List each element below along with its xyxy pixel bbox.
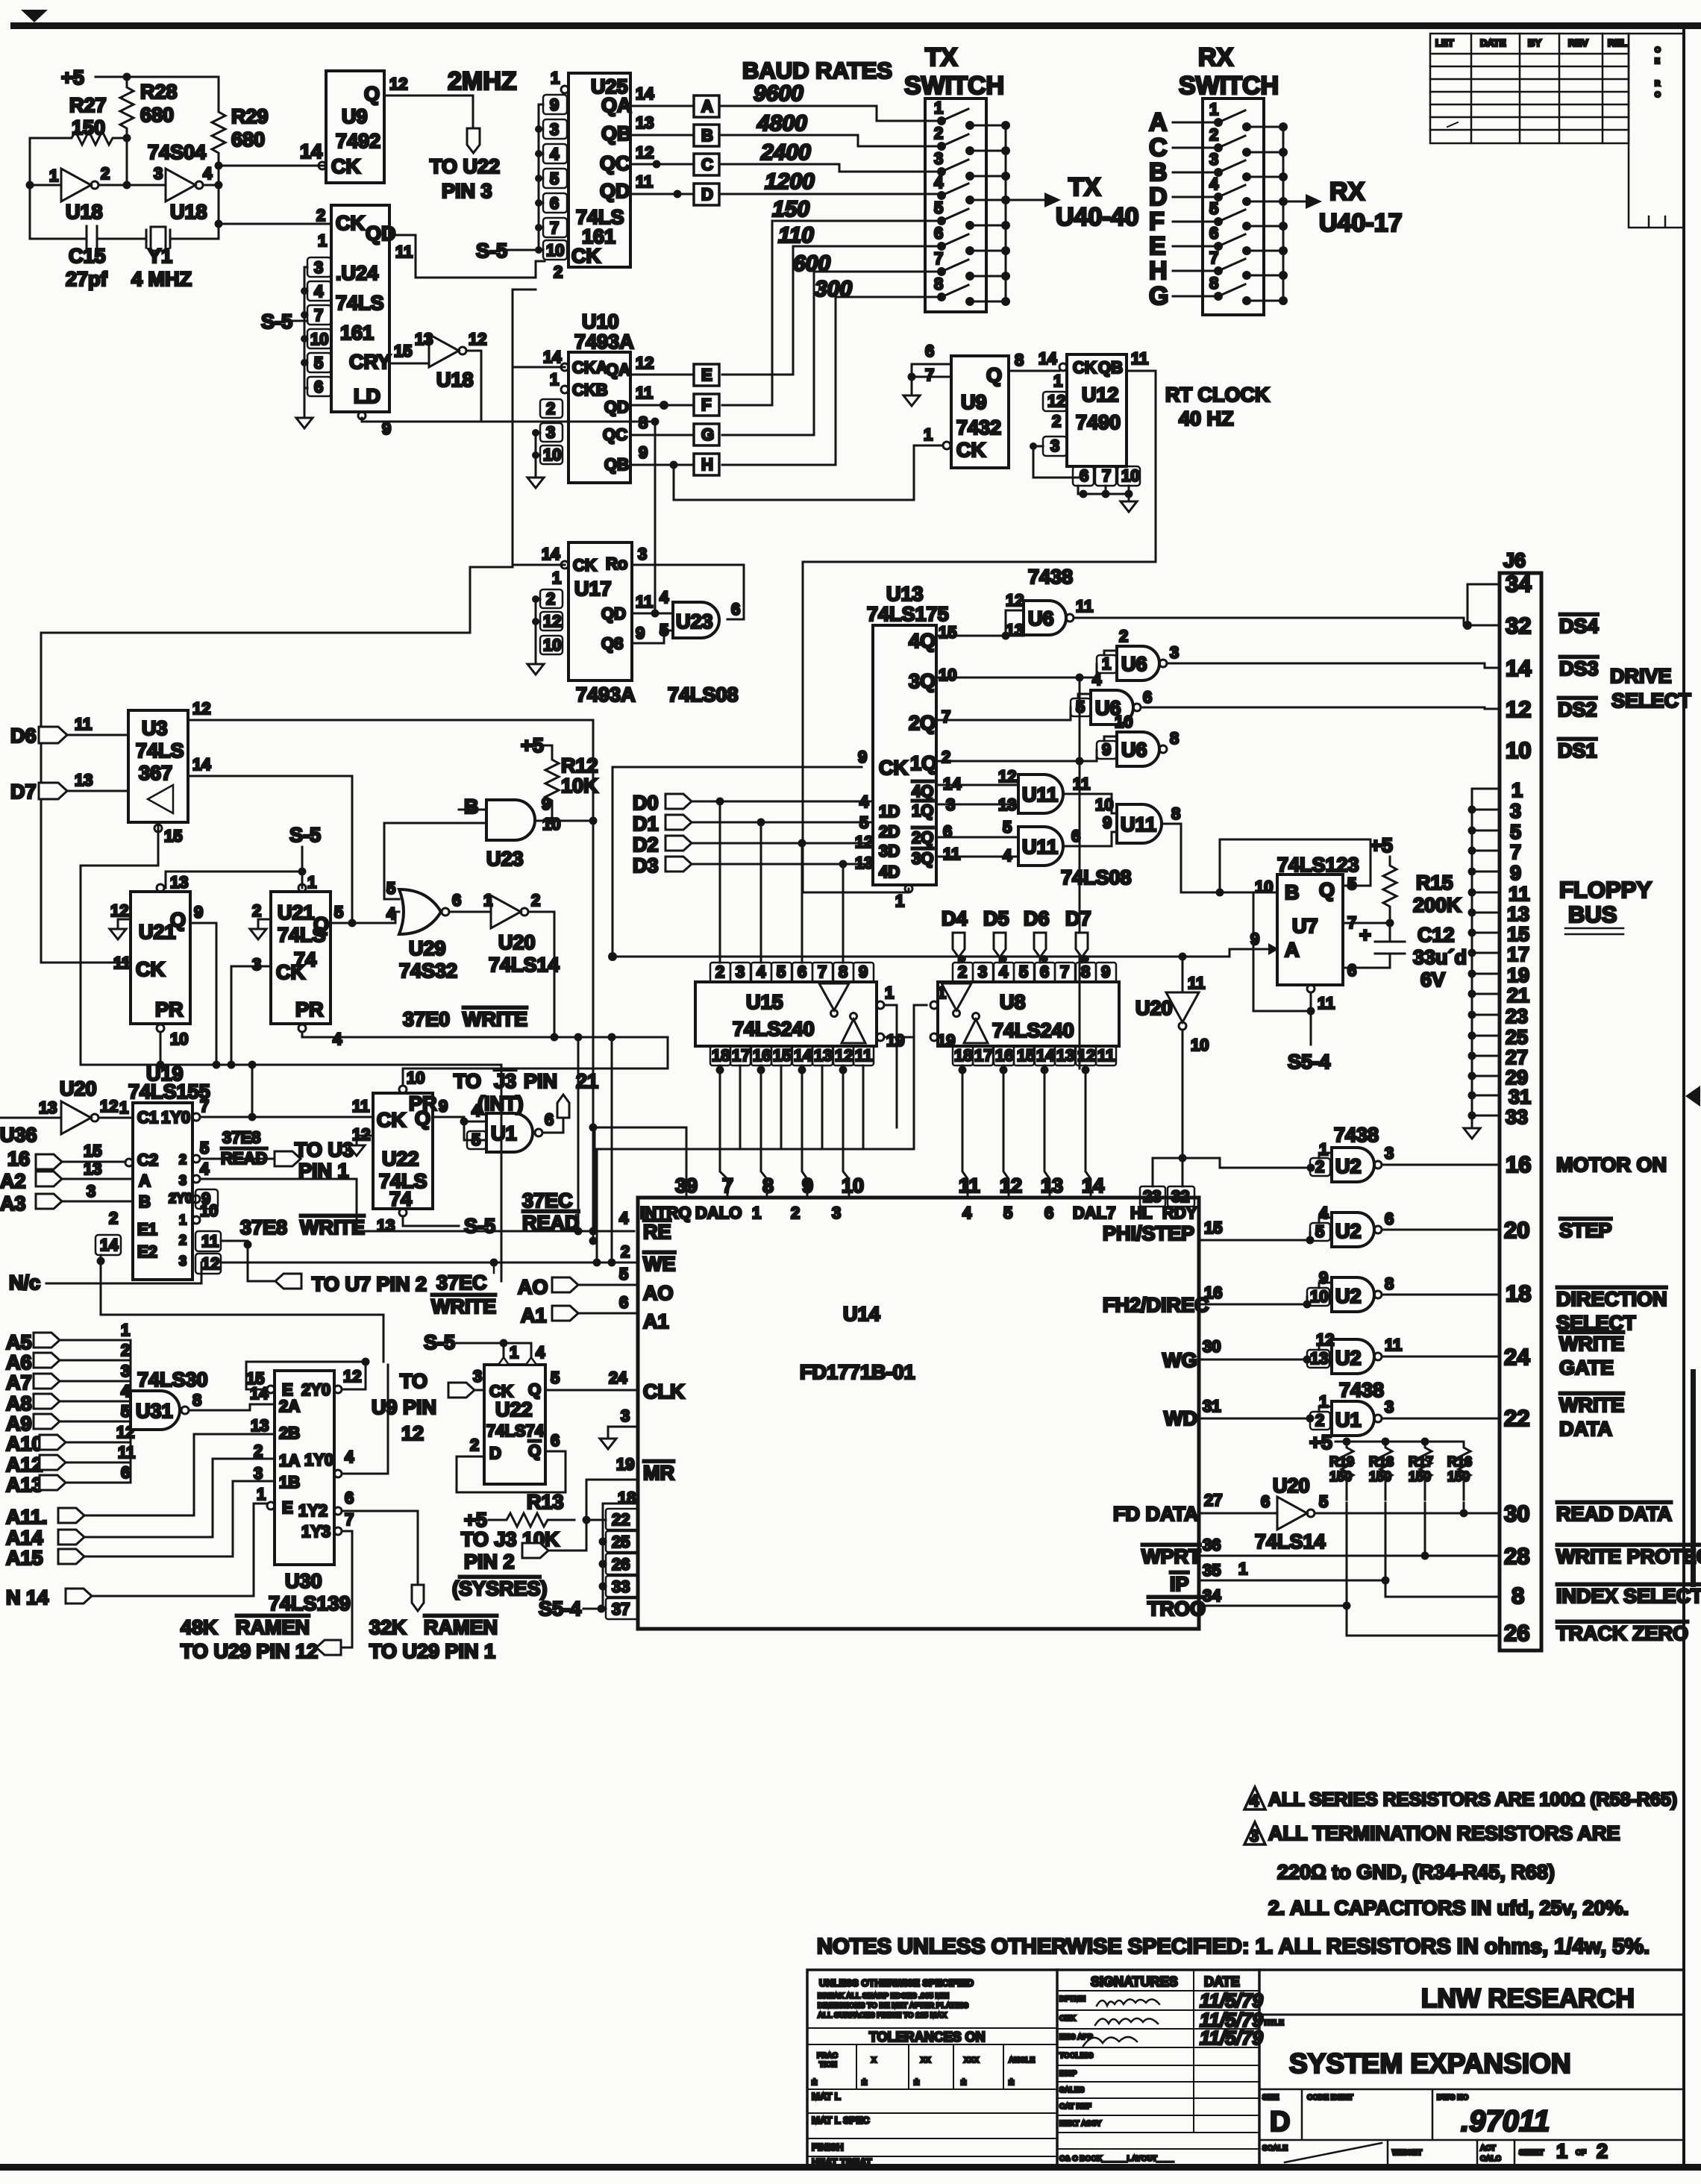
svg-text:R29: R29 xyxy=(231,105,269,128)
svg-text:11: 11 xyxy=(943,845,960,863)
svg-text:7: 7 xyxy=(550,219,559,237)
svg-text:7: 7 xyxy=(1102,466,1111,485)
svg-text:2: 2 xyxy=(252,901,261,920)
svg-text:25: 25 xyxy=(612,1533,630,1551)
svg-text:QD: QD xyxy=(600,180,630,202)
svg-text:21: 21 xyxy=(576,1070,598,1092)
svg-text:Ro: Ro xyxy=(606,554,627,573)
wire U10 QA to box E xyxy=(630,374,694,376)
svg-text:6: 6 xyxy=(1071,827,1080,845)
resistor R12 xyxy=(545,755,559,821)
wire U13 2Qb 3Qb to U11b xyxy=(936,837,1018,857)
svg-text:LNW RESEARCH: LNW RESEARCH xyxy=(1421,1984,1635,2013)
pin boxes U15 bottom xyxy=(710,1046,874,1066)
svg-text:AO: AO xyxy=(643,1282,674,1304)
wire baud 150 to switch row5 xyxy=(722,221,939,405)
svg-text:6: 6 xyxy=(1385,1210,1394,1228)
wire PR row down to U22a xyxy=(402,1068,404,1086)
svg-text:2: 2 xyxy=(531,891,540,910)
svg-text:C1: C1 xyxy=(137,1108,158,1127)
svg-text:11/5/79: 11/5/79 xyxy=(1200,2027,1263,2049)
note flag 3 xyxy=(1244,1822,1265,1844)
wire U1a out to INT flag xyxy=(542,1118,563,1133)
top-left fold triangle xyxy=(21,10,48,22)
note flag 4 xyxy=(1244,1787,1265,1809)
svg-text:2: 2 xyxy=(179,1233,187,1248)
svg-text:TO U29 PIN 12: TO U29 PIN 12 xyxy=(181,1640,318,1662)
svg-text:4: 4 xyxy=(333,1030,342,1048)
svg-text:19: 19 xyxy=(886,1031,904,1050)
wire U22a Q to U1 xyxy=(433,1117,486,1140)
capacitor C15 xyxy=(30,226,146,251)
svg-text:10: 10 xyxy=(543,445,561,464)
wire U11a out to U11c xyxy=(1063,794,1117,813)
svg-text:CALC: CALC xyxy=(1480,2155,1501,2163)
svg-text:2: 2 xyxy=(546,399,555,418)
svg-text:S-5: S-5 xyxy=(464,1215,495,1237)
connector flag to U22 pin 3 xyxy=(467,128,480,153)
svg-text:12: 12 xyxy=(1047,392,1065,410)
svg-text:23: 23 xyxy=(1506,1005,1528,1027)
gate U6b xyxy=(1117,646,1159,680)
svg-text:(SYSRES): (SYSRES) xyxy=(452,1577,548,1600)
svg-text:TRACK ZERO: TRACK ZERO xyxy=(1556,1622,1688,1645)
svg-text:5: 5 xyxy=(314,354,323,372)
svg-text:74LS: 74LS xyxy=(336,292,384,314)
svg-text:9: 9 xyxy=(542,795,551,813)
svg-text:CK: CK xyxy=(377,1109,406,1131)
svg-text:CK: CK xyxy=(276,961,305,983)
gate U1a 7438 xyxy=(486,1113,533,1152)
svg-text:D: D xyxy=(489,1444,501,1462)
wire U17 QB to U23 input xyxy=(632,631,673,643)
svg-text:74LS155: 74LS155 xyxy=(128,1080,210,1103)
connector flag TO J3 PIN 21 xyxy=(557,1095,569,1118)
svg-text:5: 5 xyxy=(1019,963,1028,981)
svg-text:3: 3 xyxy=(179,1254,187,1268)
svg-text:10: 10 xyxy=(170,1030,188,1048)
svg-text:1: 1 xyxy=(510,1343,519,1362)
svg-text:13: 13 xyxy=(75,771,93,789)
svg-text:Q: Q xyxy=(415,1107,430,1130)
svg-text:9600: 9600 xyxy=(754,81,803,106)
wire U9b Q to U12 CK xyxy=(1009,370,1059,372)
svg-text:F: F xyxy=(701,395,711,414)
svg-text:10: 10 xyxy=(543,636,561,654)
svg-text:R17: R17 xyxy=(1409,1454,1433,1469)
svg-text:32: 32 xyxy=(1506,613,1531,639)
svg-text:9: 9 xyxy=(382,419,391,438)
svg-text:.U24: .U24 xyxy=(336,262,378,284)
svg-text:5: 5 xyxy=(1209,199,1218,218)
buffer triangle2 in U15 xyxy=(842,1019,865,1043)
svg-text:22: 22 xyxy=(612,1510,630,1529)
svg-text:2: 2 xyxy=(546,589,555,608)
svg-text:J6: J6 xyxy=(1503,549,1526,572)
svg-text:Q: Q xyxy=(313,913,329,936)
svg-text:WEIGHT: WEIGHT xyxy=(1392,2149,1422,2157)
svg-text:E: E xyxy=(701,366,712,384)
gate U6d xyxy=(1117,732,1159,766)
ground xyxy=(903,395,920,406)
svg-text:36: 36 xyxy=(1203,1536,1221,1554)
IC U24 74LS161 xyxy=(331,205,389,412)
svg-text:74LS: 74LS xyxy=(136,739,184,762)
svg-text:BAUD RATES: BAUD RATES xyxy=(742,57,892,84)
svg-text:U11: U11 xyxy=(1121,813,1156,836)
svg-text:1: 1 xyxy=(552,569,561,587)
gate U29 74S32 xyxy=(399,889,441,934)
IC U15 74LS240 xyxy=(695,982,877,1046)
svg-text:6: 6 xyxy=(545,1110,554,1129)
ground xyxy=(110,929,126,939)
svg-text:1Y0: 1Y0 xyxy=(304,1451,333,1469)
svg-text:15: 15 xyxy=(84,1142,101,1160)
svg-text:2Q: 2Q xyxy=(909,712,936,734)
wire U24 QD out to U25 CK xyxy=(389,235,545,278)
svg-text:6: 6 xyxy=(121,1463,130,1482)
svg-text:SIGNATURES: SIGNATURES xyxy=(1091,1974,1178,1989)
svg-text:19: 19 xyxy=(616,1455,634,1474)
svg-text:1A: 1A xyxy=(279,1451,300,1470)
wire U15 even pins to DAL xyxy=(720,1066,849,1198)
wire U7 Q loop xyxy=(1220,839,1370,892)
wire DS readback vertical xyxy=(1079,678,1081,1068)
svg-text:11: 11 xyxy=(395,243,413,261)
svg-text:11: 11 xyxy=(636,384,653,402)
svg-text:25: 25 xyxy=(1506,1026,1528,1048)
svg-text:GATE: GATE xyxy=(1559,1357,1614,1379)
svg-text:200K: 200K xyxy=(1413,894,1462,916)
svg-text:1: 1 xyxy=(1238,1559,1247,1578)
svg-text:161: 161 xyxy=(340,322,374,344)
svg-text:6V: 6V xyxy=(1420,969,1445,991)
svg-text:31: 31 xyxy=(1203,1397,1221,1415)
svg-text:U7: U7 xyxy=(1292,915,1318,937)
svg-text:7: 7 xyxy=(934,249,943,268)
svg-text:6: 6 xyxy=(551,1431,560,1450)
svg-text:TO: TO xyxy=(454,1070,481,1092)
gate U2d WRITE GATE xyxy=(1332,1339,1374,1374)
svg-text:SHEET: SHEET xyxy=(1519,2149,1544,2157)
svg-text:G: G xyxy=(701,425,714,444)
svg-text:U23: U23 xyxy=(486,848,524,870)
svg-text:3: 3 xyxy=(1170,643,1179,662)
svg-text:1: 1 xyxy=(1319,1392,1328,1411)
wire U11b out to U11c xyxy=(1063,832,1117,846)
svg-text:TION: TION xyxy=(819,2061,837,2069)
svg-text:U2: U2 xyxy=(1335,1347,1362,1369)
wire U17 CK feed xyxy=(513,367,565,565)
svg-text:J3: J3 xyxy=(494,1070,516,1092)
svg-text:E: E xyxy=(1655,57,1660,66)
svg-text:Q8: Q8 xyxy=(601,634,623,653)
svg-text:7: 7 xyxy=(1510,841,1521,863)
svg-text:2: 2 xyxy=(1315,1157,1324,1176)
svg-text:3: 3 xyxy=(550,120,559,139)
svg-text:8: 8 xyxy=(1015,351,1024,369)
svg-text:PHI/STEP: PHI/STEP xyxy=(1103,1222,1194,1245)
svg-text:R15: R15 xyxy=(1416,872,1453,894)
wire D4-D7 into U8 top xyxy=(959,957,1082,963)
svg-text:A7: A7 xyxy=(6,1371,32,1394)
wire U31 out to U30 2A xyxy=(189,1404,275,1410)
svg-text:3: 3 xyxy=(1385,1144,1394,1163)
svg-text:10: 10 xyxy=(1506,737,1531,763)
wire U6c out to J6-12 DS2 xyxy=(1141,707,1500,709)
node E xyxy=(694,364,719,386)
svg-text:SYSTEM EXPANSION: SYSTEM EXPANSION xyxy=(1289,2048,1571,2079)
wire U24 pin chain to ground xyxy=(304,267,307,418)
svg-text:B: B xyxy=(464,795,479,818)
svg-text:RAMEN: RAMEN xyxy=(236,1616,310,1639)
inverter U18c xyxy=(429,334,459,367)
svg-text:11: 11 xyxy=(1318,994,1335,1013)
svg-text:CRY: CRY xyxy=(349,351,391,373)
wire U13 CK feed row xyxy=(613,767,862,957)
wire QD junction up xyxy=(481,422,655,613)
svg-text:18: 18 xyxy=(1506,1280,1531,1307)
svg-text:PR: PR xyxy=(155,998,184,1021)
wire baud 1200 to switch row4 xyxy=(719,193,939,195)
inverter U18b xyxy=(166,169,195,201)
wire U25 QA to box A xyxy=(630,105,694,107)
wire long loop from U24 area down-left xyxy=(41,567,513,633)
svg-text:16: 16 xyxy=(7,1148,30,1170)
svg-text:RX: RX xyxy=(1329,178,1365,206)
svg-text:11: 11 xyxy=(636,592,653,611)
svg-text:12: 12 xyxy=(1000,1174,1022,1197)
wire baud 2400 to switch row3 xyxy=(719,164,939,172)
connector flag TO U7 PIN 2 xyxy=(275,1274,301,1289)
right border line xyxy=(1682,29,1685,2166)
svg-text:7: 7 xyxy=(722,1174,733,1197)
svg-text:14: 14 xyxy=(1036,1046,1055,1065)
svg-text:3: 3 xyxy=(934,149,943,168)
RX switch box xyxy=(1203,98,1264,315)
resistor R28 xyxy=(120,77,134,138)
svg-text:1Y3: 1Y3 xyxy=(301,1522,331,1541)
svg-text:DS3: DS3 xyxy=(1559,657,1599,680)
svg-text:S-5: S-5 xyxy=(476,240,507,262)
right edge arrow marker xyxy=(1685,1086,1700,1107)
wire U31 input bus xyxy=(130,1340,132,1483)
ground xyxy=(527,478,544,488)
svg-text:U20: U20 xyxy=(60,1077,97,1100)
svg-text:RAMEN: RAMEN xyxy=(424,1616,498,1639)
svg-text:5: 5 xyxy=(386,879,395,898)
svg-text:6: 6 xyxy=(798,963,806,981)
svg-text:A2: A2 xyxy=(0,1170,26,1192)
svg-text:A: A xyxy=(139,1171,151,1190)
svg-text:7438: 7438 xyxy=(1028,566,1073,588)
svg-text:R18: R18 xyxy=(1369,1454,1394,1469)
svg-text:13: 13 xyxy=(170,873,188,892)
svg-text:U6: U6 xyxy=(1121,739,1147,761)
svg-text:TO U3: TO U3 xyxy=(295,1139,354,1161)
svg-text:ACT: ACT xyxy=(1480,2144,1496,2153)
bottom row xyxy=(1388,2140,1514,2166)
wire U3 pin12 out xyxy=(188,719,593,722)
svg-text:WD: WD xyxy=(1164,1407,1197,1430)
svg-text:10: 10 xyxy=(1191,1036,1209,1054)
svg-text:11: 11 xyxy=(1073,775,1090,793)
svg-text:11: 11 xyxy=(1097,1046,1115,1065)
svg-text:31: 31 xyxy=(1509,1086,1531,1108)
svg-text:3: 3 xyxy=(621,1407,630,1425)
svg-text:D7: D7 xyxy=(10,780,37,803)
svg-text:5: 5 xyxy=(619,1265,628,1283)
svg-text:13: 13 xyxy=(636,113,654,132)
svg-text:1Q: 1Q xyxy=(912,801,933,820)
wire U13 3Q to U6b xyxy=(936,664,1097,678)
wire U20c out to pins 23/32 and U2a xyxy=(1153,1030,1311,1186)
svg-text:2. ALL CAPACITORS IN ufd, 2: 2. ALL CAPACITORS IN ufd, 25v, 20%. xyxy=(1268,1897,1629,1919)
wire E2 chain down xyxy=(101,1255,383,1362)
svg-text:Y1: Y1 xyxy=(148,245,172,267)
svg-text:17: 17 xyxy=(974,1046,992,1065)
svg-text:10: 10 xyxy=(310,330,328,348)
svg-text:INSP: INSP xyxy=(1059,2070,1077,2078)
svg-text:QC: QC xyxy=(603,425,627,444)
svg-text:2: 2 xyxy=(934,124,943,143)
IC U30 74LS139 xyxy=(275,1371,334,1565)
svg-text:C: C xyxy=(701,155,713,174)
svg-text:30: 30 xyxy=(1504,1501,1529,1527)
svg-text:15: 15 xyxy=(1017,1046,1035,1065)
svg-text:U20: U20 xyxy=(1273,1474,1310,1497)
svg-text:13: 13 xyxy=(814,1046,832,1065)
svg-text:74LS74: 74LS74 xyxy=(486,1421,545,1440)
svg-text:14: 14 xyxy=(1082,1174,1104,1197)
connector flag 48K RAMEN xyxy=(316,1640,341,1655)
svg-text:6: 6 xyxy=(731,600,740,619)
svg-text:Q: Q xyxy=(528,1380,541,1399)
svg-text:CK: CK xyxy=(573,556,597,575)
IC U9 7492 xyxy=(326,71,384,183)
svg-text:680: 680 xyxy=(140,104,174,126)
svg-text:U8: U8 xyxy=(1000,991,1026,1013)
wire INTRQ xyxy=(595,1127,686,1231)
svg-text:3: 3 xyxy=(546,423,555,442)
svg-text:5: 5 xyxy=(1319,1492,1328,1511)
svg-text:OF: OF xyxy=(1576,2149,1586,2157)
svg-text:7: 7 xyxy=(345,1510,354,1529)
svg-text:11: 11 xyxy=(1509,883,1530,905)
svg-text:Q: Q xyxy=(364,83,380,105)
svg-text:12: 12 xyxy=(343,1367,361,1386)
svg-text:1B: 1B xyxy=(279,1473,300,1492)
wire U13 2Q to U6c xyxy=(936,707,1071,720)
svg-text:6: 6 xyxy=(1143,688,1152,707)
svg-text:DS1: DS1 xyxy=(1558,739,1597,762)
wire FD DATA through U20d to J6-30 xyxy=(1199,1512,1500,1515)
svg-text:SCALE: SCALE xyxy=(1262,2144,1288,2153)
svg-text:LET: LET xyxy=(1435,37,1454,49)
wire U25 QB to box B xyxy=(630,134,694,137)
svg-text:15: 15 xyxy=(246,1369,264,1388)
svg-text:U14: U14 xyxy=(843,1303,880,1325)
wire U30 1Y2 to 32K flag xyxy=(342,1511,418,1585)
svg-text:S-5: S-5 xyxy=(424,1331,455,1354)
svg-text:74LS30: 74LS30 xyxy=(137,1368,208,1391)
svg-text:12: 12 xyxy=(110,901,128,920)
svg-text:UNLESS OTHERWISE SPECIFIED: UNLESS OTHERWISE SPECIFIED xyxy=(819,1977,974,1989)
svg-text:13: 13 xyxy=(1310,1349,1328,1368)
svg-text:IP: IP xyxy=(1170,1573,1189,1595)
svg-text:BREAK ALL SHARP EDGES .005 MIN: BREAK ALL SHARP EDGES .005 MIN xyxy=(818,1992,949,2000)
wire U10 left chain to ground xyxy=(536,433,540,478)
svg-text:4: 4 xyxy=(386,904,396,923)
wire U8 pin1 pin19 xyxy=(930,1001,938,1009)
svg-text:150: 150 xyxy=(1369,1469,1391,1484)
svg-text:11: 11 xyxy=(855,1046,872,1065)
svg-text:U30: U30 xyxy=(285,1570,322,1592)
svg-text:11: 11 xyxy=(113,954,131,972)
node H xyxy=(694,454,719,475)
svg-text:4: 4 xyxy=(200,1160,210,1178)
svg-text:D4: D4 xyxy=(942,907,968,930)
svg-text:5: 5 xyxy=(121,1402,130,1421)
svg-text:1: 1 xyxy=(1102,654,1111,673)
svg-text:3: 3 xyxy=(736,963,745,981)
resistor R27 xyxy=(30,131,127,145)
svg-text:WRITE PROTECT: WRITE PROTECT xyxy=(1556,1545,1701,1568)
svg-text:7: 7 xyxy=(200,1097,209,1116)
svg-text:ALL SERIES RESISTORS ARE 10: ALL SERIES RESISTORS ARE 100Ω (R58-R65) xyxy=(1268,1789,1677,1810)
wire U25 left pin chain xyxy=(539,104,543,250)
svg-text:3: 3 xyxy=(314,258,323,277)
pin boxes U25 xyxy=(543,95,567,260)
svg-text:CK: CK xyxy=(879,757,908,779)
svg-text:4Q: 4Q xyxy=(912,782,933,801)
svg-text:8: 8 xyxy=(1209,274,1218,292)
wire baud 4800 to switch row2 xyxy=(719,135,939,146)
wire U10 CKA clock feed xyxy=(513,290,565,367)
svg-text:2: 2 xyxy=(1119,627,1128,645)
svg-text:5: 5 xyxy=(551,1368,560,1387)
svg-text:MR: MR xyxy=(643,1462,674,1484)
svg-text:TX: TX xyxy=(925,43,958,72)
svg-text:1: 1 xyxy=(1556,2140,1567,2162)
wire D0-D3 taps down to U15 xyxy=(720,801,843,963)
svg-text:7493A: 7493A xyxy=(576,683,636,706)
svg-text:R13: R13 xyxy=(527,1491,564,1513)
svg-text:S5-4: S5-4 xyxy=(1288,1051,1330,1073)
svg-text:4800: 4800 xyxy=(756,111,807,136)
svg-text:6: 6 xyxy=(1209,224,1218,243)
svg-text:QA: QA xyxy=(606,360,630,379)
svg-text:H: H xyxy=(1149,257,1168,285)
svg-text:3: 3 xyxy=(1050,437,1059,455)
svg-text:2D: 2D xyxy=(879,822,900,841)
svg-text:1: 1 xyxy=(885,983,894,1002)
revision table xyxy=(1430,34,1684,228)
svg-text:10: 10 xyxy=(1115,713,1133,731)
wire U7 pin11 to B loop and S5-4 xyxy=(1253,892,1311,1045)
svg-text:DATE: DATE xyxy=(1204,1974,1240,1989)
wire U18c out loop to LD pin 9 xyxy=(362,351,481,422)
svg-text:8: 8 xyxy=(1170,729,1179,748)
wire RX output bus xyxy=(1247,127,1283,301)
svg-text:12: 12 xyxy=(1077,1046,1095,1065)
wire baud 110 to switch row6 xyxy=(722,246,939,375)
svg-text:U20: U20 xyxy=(498,931,536,954)
svg-text:74LS240: 74LS240 xyxy=(992,1019,1074,1042)
svg-text:14: 14 xyxy=(1506,655,1532,681)
svg-text:11: 11 xyxy=(1385,1336,1402,1354)
svg-text:8: 8 xyxy=(1081,963,1090,981)
